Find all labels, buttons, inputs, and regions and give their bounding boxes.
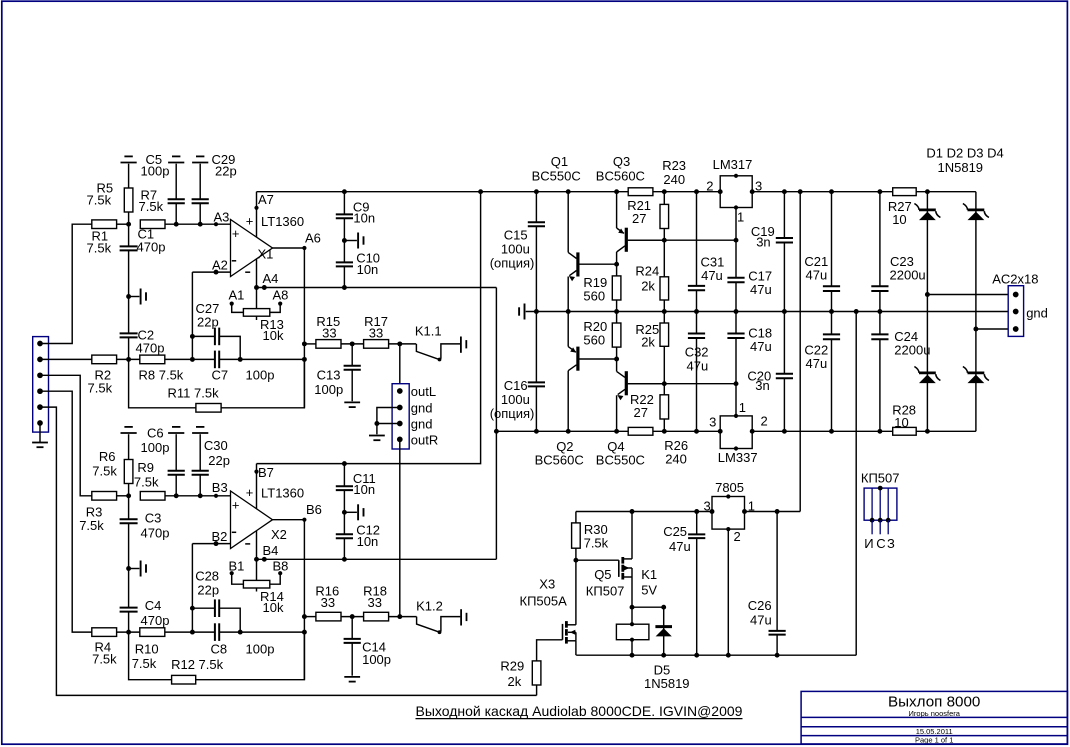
resistor R22 xyxy=(630,384,669,432)
capacitor C4 xyxy=(120,569,170,633)
capacitor C2 xyxy=(120,297,165,360)
svg-text:33: 33 xyxy=(368,595,382,610)
regulator U3 7805 xyxy=(704,480,756,655)
svg-text:33: 33 xyxy=(321,595,335,610)
capacitor C7 xyxy=(212,351,275,383)
diode D1 xyxy=(914,192,940,295)
svg-text:3: 3 xyxy=(704,499,711,514)
capacitor C30 xyxy=(192,427,230,496)
svg-text:5V: 5V xyxy=(641,583,657,598)
svg-text:gnd: gnd xyxy=(411,401,433,416)
wire -V bottom rail xyxy=(494,429,976,434)
wire +V top rail xyxy=(257,189,976,194)
svg-text:22p: 22p xyxy=(215,164,237,179)
wire LM317 adjust row xyxy=(628,238,739,243)
resistor R8 xyxy=(139,355,184,382)
node B stub junction xyxy=(126,566,131,571)
capacitor C13 with ground xyxy=(314,344,361,407)
svg-text:10k: 10k xyxy=(263,328,284,343)
svg-text:470p: 470p xyxy=(141,526,170,541)
wire R30 to Q5 gate xyxy=(576,559,619,561)
capacitor C22 xyxy=(804,312,840,432)
wire outR xyxy=(399,439,401,616)
wire R17 to K1.1 xyxy=(389,341,417,346)
capacitor C1 xyxy=(120,224,166,296)
svg-text:C15: C15 xyxy=(504,228,528,243)
svg-text:outR: outR xyxy=(411,433,438,448)
connector AC2x18 xyxy=(992,272,1048,337)
svg-text:Q1: Q1 xyxy=(551,154,568,169)
wire B4 negative-supply rail xyxy=(257,557,497,562)
svg-text:7.5k: 7.5k xyxy=(87,193,112,208)
relay coil K1 5V xyxy=(616,567,657,655)
capacitor C24 xyxy=(871,312,930,432)
wire D2 to AC pin3 xyxy=(973,327,1015,332)
svg-text:C7: C7 xyxy=(212,368,229,383)
capacitor C27 xyxy=(196,301,241,359)
transistor Q4 BC550C xyxy=(596,359,665,468)
resistor R20 xyxy=(583,312,620,362)
capacitor C29 xyxy=(192,152,237,224)
svg-text:BC560C: BC560C xyxy=(596,169,645,184)
svg-text:R9: R9 xyxy=(137,460,154,475)
svg-text:B3: B3 xyxy=(212,480,228,495)
svg-text:A8: A8 xyxy=(273,288,289,303)
open stub right of C1/C2 node xyxy=(129,289,146,305)
resistor R26 xyxy=(628,427,688,466)
svg-text:7.5k: 7.5k xyxy=(134,475,159,490)
svg-text:R11 7.5k: R11 7.5k xyxy=(168,386,220,401)
diode D3 xyxy=(914,295,940,432)
capacitor C11 xyxy=(336,464,376,513)
svg-text:D1 D2 D3 D4: D1 D2 D3 D4 xyxy=(926,146,1003,161)
svg-text:240: 240 xyxy=(665,452,687,467)
wire R9 to op-amp X2 +input xyxy=(165,493,231,498)
svg-text:C26: C26 xyxy=(748,598,772,613)
svg-text:47u: 47u xyxy=(806,268,828,283)
wire R15 to R17 xyxy=(341,341,364,346)
svg-text:КП507: КП507 xyxy=(586,584,625,599)
svg-text:1: 1 xyxy=(748,499,755,514)
svg-text:1N5819: 1N5819 xyxy=(644,676,690,691)
resistor R5 xyxy=(87,156,137,224)
svg-text:33: 33 xyxy=(369,326,383,341)
resistor R15 xyxy=(316,314,341,348)
svg-text:C8: C8 xyxy=(211,642,228,657)
svg-text:B8: B8 xyxy=(273,559,289,574)
svg-text:10n: 10n xyxy=(357,262,379,277)
svg-text:470p: 470p xyxy=(141,613,170,628)
svg-text:2: 2 xyxy=(734,529,741,544)
input connector X-in (6-pin) xyxy=(33,337,49,433)
svg-text:C4: C4 xyxy=(145,598,162,613)
capacitor C3 xyxy=(120,496,170,569)
svg-text:560: 560 xyxy=(583,289,605,304)
svg-text:B2: B2 xyxy=(212,529,228,544)
svg-text:3n: 3n xyxy=(755,378,769,393)
svg-text:C13: C13 xyxy=(317,368,341,383)
node A stub junction xyxy=(126,294,131,299)
wire output to R15 xyxy=(302,341,316,346)
wire R30 to X3 drain xyxy=(575,560,577,625)
label D1 D2 D3 D4 1N5819 xyxy=(926,146,1003,176)
svg-text:2: 2 xyxy=(761,414,768,429)
resistor R29 xyxy=(500,659,540,696)
svg-text:R23: R23 xyxy=(662,158,686,173)
svg-text:R6: R6 xyxy=(99,449,116,464)
svg-text:470p: 470p xyxy=(137,240,166,255)
resistor R30 xyxy=(572,512,609,563)
svg-text:7.5k: 7.5k xyxy=(132,656,157,671)
svg-text:7.5k: 7.5k xyxy=(584,535,609,550)
svg-text:100p: 100p xyxy=(141,164,170,179)
svg-text:1: 1 xyxy=(737,210,744,225)
resistor R19 xyxy=(583,262,620,312)
resistor R12 xyxy=(171,657,224,684)
resistor R21 xyxy=(627,192,668,241)
svg-text:И: И xyxy=(864,536,873,551)
svg-text:(опция): (опция) xyxy=(490,406,535,421)
wire outL xyxy=(399,344,401,391)
svg-text:3: 3 xyxy=(755,178,762,193)
svg-text:C28: C28 xyxy=(195,569,219,584)
label B3 xyxy=(212,480,228,498)
svg-text:2k: 2k xyxy=(508,674,522,689)
svg-text:A4: A4 xyxy=(263,271,279,286)
svg-text:10n: 10n xyxy=(353,211,375,226)
wire R4 to R10 xyxy=(117,630,140,635)
relay contact K1.2 xyxy=(416,599,466,635)
transistor Q2 BC560C xyxy=(535,312,617,468)
resistor R18 xyxy=(363,584,389,621)
open stub left of mid rail xyxy=(519,304,524,320)
wire input pin3 to R3 xyxy=(40,375,92,496)
wire R2 to R8 xyxy=(117,357,140,362)
wire B2 inverting input net xyxy=(190,541,231,632)
svg-text:7.5k: 7.5k xyxy=(139,199,164,214)
wire input pin2 to R2 xyxy=(40,358,92,360)
capacitor C8 xyxy=(211,623,275,656)
capacitor C26 xyxy=(748,512,786,656)
label B2 xyxy=(212,529,228,544)
svg-text:47u: 47u xyxy=(806,356,828,371)
svg-text:10n: 10n xyxy=(357,534,379,549)
svg-text:X2: X2 xyxy=(271,527,287,542)
resistor R11 xyxy=(168,386,222,413)
svg-text:47u: 47u xyxy=(701,268,723,283)
svg-text:7805: 7805 xyxy=(715,480,744,495)
label A3 xyxy=(214,210,230,227)
svg-text:7.5k: 7.5k xyxy=(88,381,113,396)
svg-text:C25: C25 xyxy=(663,524,687,539)
relay contact K1.1 xyxy=(415,324,466,362)
capacitor C20 xyxy=(747,312,793,432)
svg-text:1: 1 xyxy=(739,400,746,415)
svg-text:1N5819: 1N5819 xyxy=(938,160,984,175)
transistor Q1 BC550C xyxy=(532,154,617,312)
node A4 rail dots xyxy=(254,285,267,290)
svg-text:X3: X3 xyxy=(539,577,555,592)
op-amp X2 LT1360 xyxy=(231,485,305,549)
svg-text:Игорь noosfera: Игорь noosfera xyxy=(908,709,960,718)
svg-text:22p: 22p xyxy=(208,453,230,468)
svg-text:КП505А: КП505А xyxy=(520,594,568,609)
capacitor C6 xyxy=(141,426,185,496)
wire input pin4 to R4 xyxy=(40,391,92,632)
wire R16 to R18 xyxy=(341,614,364,619)
capacitor C32 xyxy=(685,312,709,432)
wire R10 to C8 xyxy=(165,630,215,635)
capacitor C16 xyxy=(490,312,545,432)
svg-text:22p: 22p xyxy=(197,315,219,330)
resistor R9 xyxy=(134,460,165,500)
wire C7 to output node xyxy=(219,357,307,362)
capacitor C15 xyxy=(490,192,545,312)
capacitor C18 xyxy=(727,312,772,384)
node C9/C10 midpoint with stub xyxy=(342,233,364,249)
resistor R1 xyxy=(87,220,117,256)
svg-text:7.5k: 7.5k xyxy=(92,464,117,479)
svg-text:+: + xyxy=(232,498,240,513)
svg-text:100p: 100p xyxy=(246,642,275,657)
transistor Q5 KP507 xyxy=(586,512,632,608)
svg-text:A6: A6 xyxy=(305,231,321,246)
svg-text:A2: A2 xyxy=(212,258,228,273)
wire +V drop to 7805 xyxy=(799,192,801,512)
capacitor C19 xyxy=(751,192,793,312)
svg-text:100p: 100p xyxy=(314,382,343,397)
pin B7 wire xyxy=(254,464,274,509)
svg-text:100p: 100p xyxy=(141,440,170,455)
ground under input connector xyxy=(32,423,48,447)
transistor Q3 BC560C xyxy=(596,154,665,264)
svg-text:2k: 2k xyxy=(641,335,655,350)
svg-text:47u: 47u xyxy=(750,339,772,354)
resistor R3 xyxy=(79,492,116,534)
open stub right of C3/C4 node xyxy=(129,561,146,577)
wire -V feed to op-amps xyxy=(495,288,497,560)
wire A2 inverting input net xyxy=(190,270,231,360)
capacitor C9 xyxy=(336,192,375,241)
capacitor C5 xyxy=(141,152,185,224)
wire output B6 xyxy=(273,502,322,680)
diode D5 xyxy=(644,607,690,691)
diode D2 xyxy=(963,192,989,329)
resistor R14 offset null xyxy=(229,559,289,616)
capacitor C12 xyxy=(336,512,380,559)
svg-text:2200u: 2200u xyxy=(890,268,926,283)
svg-text:+: + xyxy=(246,485,254,500)
svg-text:LM317: LM317 xyxy=(713,157,753,172)
svg-text:2: 2 xyxy=(706,178,713,193)
wire mute line to input pin5 xyxy=(40,407,537,695)
capacitor C17 xyxy=(727,240,772,311)
svg-text:BC550C: BC550C xyxy=(596,453,645,468)
pin A7 wire xyxy=(254,192,274,237)
connector KP507 pinout legend xyxy=(861,471,900,552)
svg-text:240: 240 xyxy=(663,172,685,187)
svg-text:C30: C30 xyxy=(204,438,228,453)
svg-text:22p: 22p xyxy=(197,583,219,598)
svg-text:gnd: gnd xyxy=(411,417,433,432)
title block xyxy=(801,691,1067,744)
svg-text:47u: 47u xyxy=(750,282,772,297)
svg-text:gnd: gnd xyxy=(1026,306,1048,321)
svg-text:+: + xyxy=(246,214,254,229)
svg-text:K1.1: K1.1 xyxy=(415,324,442,339)
resistor R7 xyxy=(139,188,166,229)
pin A4 wire xyxy=(257,259,279,288)
svg-text:100p: 100p xyxy=(362,652,391,667)
capacitor C25 xyxy=(663,512,705,656)
wire R3 to node B xyxy=(117,493,131,498)
svg-text:Q5: Q5 xyxy=(594,567,611,582)
caption text xyxy=(416,703,743,719)
resistor R27 xyxy=(888,188,916,227)
wire gnd mid rail xyxy=(526,309,1016,314)
svg-text:10n: 10n xyxy=(353,482,375,497)
regulator U1 LM317 xyxy=(706,157,762,240)
svg-text:B6: B6 xyxy=(306,502,322,517)
capacitor C10 xyxy=(336,241,380,288)
svg-text:7.5k: 7.5k xyxy=(92,652,117,667)
resistor R6 xyxy=(92,427,136,496)
svg-text:З: З xyxy=(887,536,895,551)
svg-text:3n: 3n xyxy=(756,235,770,250)
svg-text:47u: 47u xyxy=(750,613,772,628)
wire R12 branch xyxy=(129,632,305,680)
wire R7 to op-amp X1 +input xyxy=(165,222,231,227)
svg-text:C3: C3 xyxy=(145,511,162,526)
svg-text:+: + xyxy=(232,226,240,241)
transistor X3 KP505A xyxy=(520,577,576,661)
capacitor C23 xyxy=(871,192,925,312)
regulator U2 LM337 xyxy=(709,384,768,465)
capacitor C21 xyxy=(804,192,840,312)
svg-text:47u: 47u xyxy=(687,359,709,374)
resistor R28 xyxy=(892,403,916,436)
wire C8 to output node xyxy=(219,630,307,635)
svg-text:27: 27 xyxy=(632,211,646,226)
resistor R17 xyxy=(364,314,389,348)
svg-text:КП507: КП507 xyxy=(861,471,900,486)
svg-text:С: С xyxy=(876,536,885,551)
svg-text:BC560C: BC560C xyxy=(535,453,584,468)
wire A4 negative-supply rail xyxy=(257,285,497,290)
capacitor C14 with ground xyxy=(344,617,391,682)
svg-text:Q3: Q3 xyxy=(613,154,630,169)
resistor R4 xyxy=(92,628,117,667)
svg-text:R10: R10 xyxy=(135,642,159,657)
diode D4 xyxy=(963,329,989,431)
svg-text:Page 1 of 1: Page 1 of 1 xyxy=(915,736,953,745)
svg-text:7.5k: 7.5k xyxy=(79,518,104,533)
output connector (outL gnd gnd outR) xyxy=(392,384,438,449)
svg-text:27: 27 xyxy=(634,405,648,420)
svg-text:R12 7.5k: R12 7.5k xyxy=(171,657,224,672)
node Q5 source / relay xyxy=(630,605,667,610)
wire R8 to C7 xyxy=(165,357,215,362)
svg-text:100u: 100u xyxy=(501,392,530,407)
svg-text:BC550C: BC550C xyxy=(532,169,581,184)
wire R18 to K1.2 xyxy=(389,614,417,619)
svg-text:B1: B1 xyxy=(229,559,245,574)
svg-text:10: 10 xyxy=(894,415,908,430)
resistor R10 xyxy=(132,628,165,671)
label A2 xyxy=(212,258,228,273)
resistor R13 offset null xyxy=(229,288,289,344)
node B4 rail dots xyxy=(254,557,267,562)
svg-text:47u: 47u xyxy=(669,539,691,554)
svg-text:LT1360: LT1360 xyxy=(261,214,304,229)
wire B7 positive-supply rail xyxy=(257,192,481,466)
svg-text:100u: 100u xyxy=(501,242,530,257)
wire relay section ground line xyxy=(576,653,856,658)
svg-text:B7: B7 xyxy=(258,465,274,480)
svg-text:10k: 10k xyxy=(263,600,284,615)
svg-text:LT1360: LT1360 xyxy=(261,486,304,501)
svg-text:3: 3 xyxy=(709,415,716,430)
wire R11 branch xyxy=(129,359,305,407)
svg-text:X1: X1 xyxy=(258,247,274,262)
capacitor C28 xyxy=(195,569,240,633)
svg-text:K1.2: K1.2 xyxy=(416,599,443,614)
svg-text:560: 560 xyxy=(583,332,605,347)
svg-text:7.5k: 7.5k xyxy=(87,241,112,256)
pin B4 wire xyxy=(257,531,279,560)
capacitor C31 xyxy=(688,192,724,312)
svg-text:R8 7.5k: R8 7.5k xyxy=(139,368,184,383)
wire R1 to node A-in xyxy=(117,223,129,225)
svg-text:LM337: LM337 xyxy=(718,450,758,465)
resistor R24 xyxy=(635,240,668,311)
node A1-junction R1/R5/R7/C1 xyxy=(126,222,131,227)
svg-text:2200u: 2200u xyxy=(894,343,930,358)
svg-text:33: 33 xyxy=(322,326,336,341)
svg-text:470p: 470p xyxy=(136,341,165,356)
wire LM337 adjust row xyxy=(628,381,739,386)
wire gnd drop to relay section xyxy=(855,312,857,656)
svg-text:AC2x18: AC2x18 xyxy=(992,272,1038,287)
svg-text:B4: B4 xyxy=(263,543,279,558)
wire input pin1 to R1 xyxy=(40,224,92,343)
svg-text:100p: 100p xyxy=(246,368,275,383)
wire 5V top line xyxy=(576,509,800,514)
svg-text:A1: A1 xyxy=(229,288,245,303)
wire output A6 xyxy=(273,231,321,408)
wire D1 to AC pin1 xyxy=(925,292,1016,297)
resistor R16 xyxy=(315,584,341,621)
svg-text:R29: R29 xyxy=(500,659,524,674)
wire output to R16 xyxy=(302,614,316,619)
resistor R23 xyxy=(628,158,686,196)
svg-text:C6: C6 xyxy=(147,426,164,441)
svg-text:R24: R24 xyxy=(635,263,659,278)
resistor R2 xyxy=(88,355,117,395)
svg-text:2k: 2k xyxy=(641,279,655,294)
svg-text:Выходной каскад Audiolab 8000C: Выходной каскад Audiolab 8000CDE. IGVIN@… xyxy=(416,703,743,719)
svg-text:C16: C16 xyxy=(504,378,528,393)
svg-text:outL: outL xyxy=(411,384,436,399)
svg-text:A7: A7 xyxy=(258,192,274,207)
wire output connector ground loop xyxy=(369,408,400,441)
node C11/C12 midpoint with stub xyxy=(342,504,364,520)
svg-text:(опция): (опция) xyxy=(490,256,535,271)
svg-text:C32: C32 xyxy=(685,345,709,360)
svg-text:K1: K1 xyxy=(641,567,657,582)
op-amp X1 LT1360 xyxy=(231,214,305,277)
resistor R25 xyxy=(635,312,668,384)
